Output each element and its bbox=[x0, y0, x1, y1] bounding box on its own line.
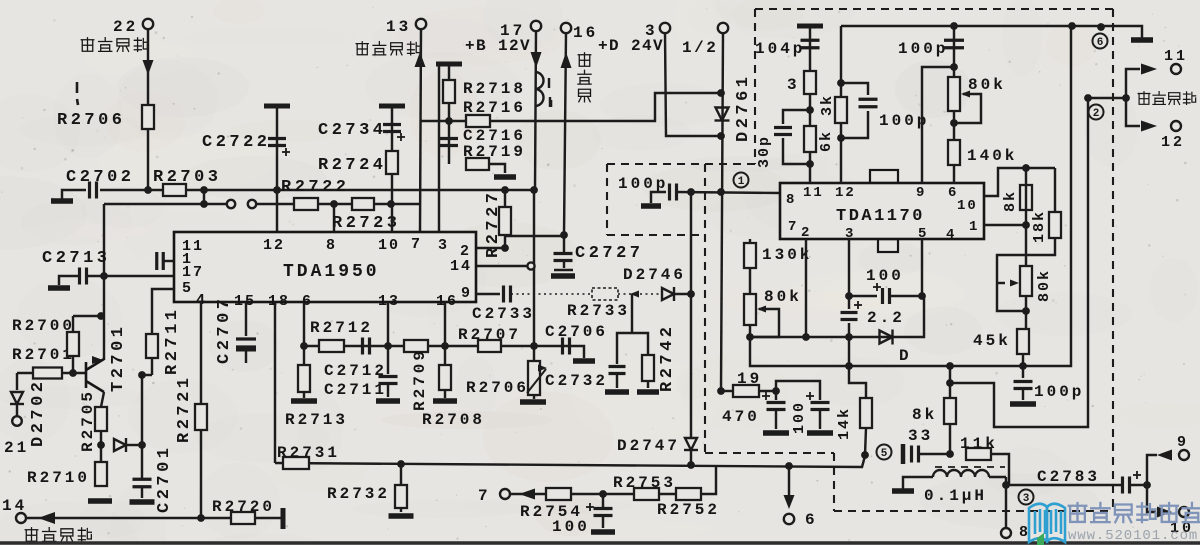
resistor R2700 bbox=[67, 332, 79, 356]
junction fork bbox=[1122, 94, 1130, 102]
trimmer R2706 body bbox=[528, 361, 540, 395]
svg-text:8k: 8k bbox=[912, 406, 937, 424]
diode at R2705 node bbox=[114, 438, 126, 452]
capacitor 2.2 bbox=[841, 313, 858, 320]
junction D2761 top bbox=[717, 89, 725, 97]
circled node 1 bbox=[734, 173, 749, 189]
terminal 21 bbox=[12, 416, 22, 426]
capacitor 33 bbox=[912, 446, 919, 463]
junction R2700 top bbox=[97, 312, 105, 320]
svg-text:80k: 80k bbox=[764, 288, 802, 306]
svg-text:100: 100 bbox=[791, 401, 808, 434]
wire: x691 column bbox=[690, 192, 692, 294]
wire: R2713 to ground bbox=[303, 392, 305, 398]
svg-text:100: 100 bbox=[866, 267, 904, 285]
wire: pin2 stub bbox=[477, 247, 505, 249]
svg-text:D: D bbox=[899, 347, 912, 365]
terminal 17 bbox=[531, 21, 541, 31]
svg-text:100: 100 bbox=[552, 518, 590, 536]
rail bar above C2722 bbox=[264, 104, 290, 109]
wire: 100p bottom stub bbox=[1022, 366, 1024, 378]
svg-text:R2721: R2721 bbox=[175, 374, 194, 443]
junction R2723 right bbox=[387, 200, 395, 208]
wire: pin9 column bbox=[922, 67, 954, 183]
svg-text:30p: 30p bbox=[756, 135, 773, 168]
wire: 16 column down bbox=[564, 33, 566, 235]
arrow castle pulse bbox=[38, 512, 55, 524]
capacitor 30p bbox=[774, 128, 792, 135]
wire: 100p stub to ground bbox=[651, 192, 666, 203]
ground cap1 bbox=[763, 430, 789, 436]
terminal 9 bbox=[1179, 450, 1189, 460]
junction C2783 node bbox=[1143, 481, 1151, 489]
wire: R2711 lower lead bbox=[151, 358, 153, 375]
ground at C2713 bbox=[48, 285, 70, 291]
wire: bottom chain y346 pin6 to C2706 bbox=[304, 345, 569, 347]
svg-text:R2711: R2711 bbox=[163, 306, 182, 375]
wire: terminal 8 column bbox=[1005, 477, 1007, 528]
wire: base wire y373 bbox=[17, 372, 87, 374]
wire: pin5 column bbox=[921, 239, 923, 296]
wire: C2706 to ground bbox=[570, 346, 584, 358]
trimmer R2706 arrow head bbox=[538, 365, 547, 372]
wire: 33 to 8k node bbox=[919, 453, 950, 455]
wire: coil left stub bbox=[903, 477, 933, 489]
op-amp/IC U1 TDA1950 body bbox=[174, 232, 476, 302]
wire: D2761 column bbox=[721, 33, 723, 391]
resistor R2752 bbox=[676, 488, 701, 500]
terminal 22 bbox=[143, 19, 153, 29]
wire: R2705 to diode junction bbox=[100, 431, 102, 445]
IC U2 TDA1170 bottom tab bbox=[878, 239, 898, 252]
svg-text:18k: 18k bbox=[1031, 210, 1048, 243]
svg-text:D2746: D2746 bbox=[623, 266, 686, 284]
wire: diode to C2701 column bbox=[127, 444, 142, 446]
svg-text:1: 1 bbox=[738, 176, 745, 188]
wire: T2701 collector down to R2705 bbox=[101, 392, 104, 407]
wire: pin18 column to R2731 bbox=[274, 302, 276, 463]
resistor R2731 bbox=[283, 457, 309, 469]
svg-text:11: 11 bbox=[803, 185, 824, 201]
resistor R2723 bbox=[352, 198, 374, 210]
capacitor C2707 thick plate bbox=[236, 347, 256, 352]
arrow on 17 column bbox=[531, 52, 542, 68]
arrow at terminal 6 bbox=[784, 495, 795, 509]
label 视频输入 (video input) bbox=[81, 38, 147, 52]
wire: terminal-3 +D24V column bbox=[665, 33, 721, 136]
wire: pin16 column bbox=[444, 302, 446, 346]
capacitor C2727 bbox=[554, 254, 573, 261]
wire: video bus y190 from C2702 to +B column bbox=[100, 189, 534, 191]
svg-text:12: 12 bbox=[1161, 134, 1185, 151]
svg-text:1: 1 bbox=[969, 219, 979, 235]
wire: coil right stub bbox=[989, 476, 1006, 478]
decorative junction on rail bbox=[1097, 23, 1105, 31]
resistor 8k right bbox=[1020, 185, 1032, 210]
wire: 100p parallel jog top bbox=[841, 83, 868, 95]
svg-text:5: 5 bbox=[881, 448, 888, 460]
rail bar above 104p bbox=[797, 24, 823, 29]
junction diode / C2701 column bbox=[138, 441, 146, 449]
wire: pin12 column with C2722 bbox=[276, 108, 278, 232]
junction 22-column / video bus bbox=[144, 186, 152, 194]
junction x104 / C2713 wire bbox=[100, 272, 108, 280]
junction 2.2 / wire-B bbox=[845, 362, 853, 370]
wire: dotted line after R2733 bbox=[618, 293, 660, 295]
wire: R2708 to ground bbox=[444, 390, 446, 398]
capacitor 104p bbox=[801, 40, 820, 48]
dashed box1 top edge bbox=[607, 163, 755, 165]
svg-text:R2731: R2731 bbox=[277, 444, 340, 462]
wire: wire-A trimmer bus y337 bbox=[750, 296, 924, 337]
arrow terminal 10 bbox=[1157, 507, 1172, 518]
capacitor 33 left plate bbox=[901, 444, 906, 464]
wire: C2701 to ground bbox=[141, 487, 143, 498]
arrow terminal 9 bbox=[1157, 450, 1172, 461]
wire: C2713 left stub bbox=[59, 276, 78, 285]
trimmer 80k right body bbox=[1020, 266, 1032, 296]
wire: cap to ground bbox=[616, 374, 618, 388]
resistor 19 bbox=[733, 385, 759, 397]
junction 33/8k/11k bbox=[946, 450, 954, 458]
wire: 100 cap right bbox=[890, 295, 922, 297]
dashed big-box bottom edge bbox=[834, 510, 1113, 512]
junction rail/100p top bbox=[950, 22, 958, 30]
label 堡垒脉冲 (castle pulse) bbox=[25, 528, 91, 542]
svg-text:8: 8 bbox=[786, 192, 796, 208]
trimmer 80k left arrow bbox=[757, 306, 766, 313]
terminal 7 bbox=[500, 489, 510, 499]
junction 8k bottom/pin1 bbox=[1022, 221, 1030, 229]
diode D2761 bbox=[715, 108, 730, 121]
no-connect circle on pin14 bbox=[527, 262, 534, 269]
terminal 11 bbox=[1171, 64, 1181, 74]
capacitor C2712 bbox=[363, 338, 370, 355]
junction R2754 / cap bbox=[599, 490, 607, 498]
resistor R2712 bbox=[319, 340, 344, 352]
junction pin5 node bbox=[918, 292, 926, 300]
dashed box1 left edge bbox=[606, 164, 608, 235]
svg-text:3: 3 bbox=[787, 76, 800, 94]
svg-text:T2701: T2701 bbox=[109, 323, 128, 392]
resistor R2706 bbox=[142, 105, 154, 129]
line-output-transformer core dash 2 bbox=[549, 97, 551, 107]
terminal 6 bbox=[784, 514, 794, 524]
plus cap1 bbox=[762, 392, 770, 400]
wire: R2718 column bbox=[448, 66, 450, 164]
connector circle right bbox=[248, 200, 256, 208]
capacitor C2722 bbox=[268, 139, 286, 146]
wire: D2702 to terminal 21 bbox=[16, 405, 18, 416]
terminal bar right of R2720 bbox=[281, 508, 286, 529]
wire: 22 column bbox=[147, 29, 149, 190]
svg-text:www.520101.com: www.520101.com bbox=[1068, 528, 1198, 544]
resistor R2710 bbox=[95, 462, 107, 486]
scan bottom border bbox=[0, 541, 1200, 545]
resistor R2721 bbox=[195, 404, 207, 430]
capacitor C2783 bbox=[1123, 477, 1130, 494]
capacitor at IC1 pin1 left bbox=[157, 252, 164, 270]
ground under R2710 bbox=[88, 498, 112, 504]
wire: R2700 column bbox=[72, 316, 74, 372]
resistor R2708 bbox=[439, 365, 451, 390]
wire: jog R2727 to 16-column bbox=[505, 235, 564, 237]
resistor R2720 bbox=[231, 512, 255, 524]
wire: stub between buses x204 bbox=[203, 190, 205, 204]
junction R2718/R2716 bbox=[445, 117, 453, 125]
wire: 2.2 lower column bbox=[849, 323, 866, 398]
wire: 80k-right trimmer column bbox=[1025, 225, 1027, 329]
wire: pin5 line to R2711 column bbox=[152, 289, 174, 336]
junction video bus / R2727 top bbox=[501, 186, 509, 194]
dashed big-box top-left edge bbox=[754, 9, 756, 164]
capacitor 100p box1 bbox=[670, 184, 677, 201]
resistor R2742 bbox=[642, 355, 654, 381]
wire: 30p branch bbox=[783, 110, 810, 124]
resistor R2703 bbox=[163, 184, 186, 196]
inductor 0.1uH bbox=[933, 470, 989, 477]
capacitor C2733 bbox=[504, 286, 511, 303]
svg-text:R2707: R2707 bbox=[458, 326, 521, 344]
wire: D2702 column bbox=[16, 373, 18, 390]
wire: wire-B bus y366 bbox=[750, 26, 1071, 366]
capacitor 100 (el) bbox=[883, 288, 890, 304]
arrow to terminal 12 bbox=[1141, 121, 1157, 132]
junction 3k bottom bbox=[837, 134, 845, 142]
junction 19-resistor node bbox=[717, 387, 725, 395]
op-amp/IC U2 TDA1170 body bbox=[780, 183, 984, 239]
resistor R2732 bbox=[395, 485, 407, 508]
wire: wiper to bottom bbox=[997, 283, 1026, 311]
junction pin6/chain bbox=[300, 342, 308, 350]
resistor R2707 bbox=[478, 340, 501, 352]
svg-text:12: 12 bbox=[263, 237, 285, 254]
circled node 6 bbox=[1093, 34, 1108, 50]
wire: cap2 column bbox=[819, 391, 821, 400]
svg-text:R2706: R2706 bbox=[466, 379, 529, 397]
capacitor 100 at term7 bbox=[594, 509, 613, 516]
svg-text:R2712: R2712 bbox=[310, 319, 373, 337]
dashed mark above coil bbox=[935, 466, 1005, 468]
junction D2761 bottom bbox=[717, 132, 725, 140]
wire: D2746 to x691 column bbox=[674, 293, 691, 295]
ground at coil bbox=[892, 488, 914, 494]
wire: castle-pulse bus y518 bbox=[26, 517, 283, 519]
wire: D2747 to bus bbox=[690, 450, 692, 465]
svg-text:R2710: R2710 bbox=[27, 469, 90, 487]
junction D2761 column / 100p wire bbox=[717, 188, 725, 196]
capacitor C2707 plates bbox=[236, 339, 256, 347]
resistor R2716 bbox=[466, 115, 490, 127]
wire: 2.2 column bbox=[848, 296, 850, 309]
wire: C2783 right bbox=[1130, 484, 1147, 486]
junction 30p bottom bbox=[806, 160, 814, 168]
junction pin16/chain bbox=[441, 342, 449, 350]
wire: R2713 column bbox=[303, 346, 305, 365]
svg-text:33: 33 bbox=[908, 427, 933, 445]
resistor 8k bottom bbox=[944, 398, 956, 424]
ground at 100p box1 bbox=[641, 203, 661, 209]
junction pin3 node bbox=[845, 292, 853, 300]
wire: R2700 top wire bbox=[73, 315, 104, 317]
svg-text:22: 22 bbox=[113, 18, 138, 36]
wire: fork wire bbox=[1088, 97, 1126, 99]
resistor 14k bbox=[860, 398, 872, 428]
trimmer R2706 wiper arrow bbox=[527, 369, 546, 393]
junction D2746 / x691 bbox=[687, 290, 695, 298]
wire: 104p column bbox=[809, 28, 811, 183]
svg-text:D2761: D2761 bbox=[734, 73, 753, 142]
junction x204 on y204 bus bbox=[200, 200, 208, 208]
resistor R2733 (dashed) bbox=[592, 288, 618, 300]
capacitor 100 el 2 bbox=[811, 403, 830, 410]
junction R2732 bbox=[397, 460, 405, 468]
svg-text:C2707: C2707 bbox=[215, 295, 234, 364]
dashed big-box bottom notch bbox=[705, 452, 834, 454]
ground cap2 bbox=[807, 430, 833, 436]
wire: R2716 line y121 bbox=[421, 93, 721, 121]
wire: C2727 lower stub bbox=[563, 261, 565, 268]
wire: R2732 to ground bbox=[400, 508, 402, 512]
svg-text:R2718: R2718 bbox=[463, 80, 526, 98]
svg-text:3: 3 bbox=[438, 237, 449, 254]
svg-text:C2733: C2733 bbox=[472, 305, 535, 323]
wire: caps bridge bbox=[776, 381, 820, 391]
wire: R2722/R2723 bus y204 right part bbox=[256, 203, 421, 205]
junction x534 chain bbox=[530, 342, 538, 350]
resistor 11k bbox=[966, 448, 991, 460]
wire: C2702 left stub to ground bbox=[62, 190, 86, 199]
dashed big-box right edge bbox=[1112, 9, 1114, 511]
wire: 13 column down to pin7 bbox=[420, 29, 421, 232]
wire: pin9 stub bbox=[476, 293, 500, 295]
line-output-transformer core dash 1 bbox=[548, 78, 550, 88]
svg-text:R2732: R2732 bbox=[327, 485, 390, 503]
svg-text:R2709: R2709 bbox=[411, 348, 429, 411]
wire: stub cap to IC1 edge bbox=[164, 260, 174, 262]
svg-text:3k: 3k bbox=[819, 94, 836, 116]
junction 14k / bus bbox=[861, 451, 869, 459]
resistor 3k bbox=[835, 97, 847, 123]
inductor on +B column bbox=[535, 72, 544, 106]
wire: pin10 jog bbox=[984, 168, 1055, 196]
dashed big-box notch vertical bbox=[833, 453, 835, 511]
plus of 2.2 bbox=[854, 301, 862, 309]
resistor 3 bbox=[804, 71, 816, 94]
wire: x534 column down to chain bbox=[533, 190, 535, 346]
IC U2 TDA1170 top tab bbox=[870, 170, 898, 183]
wire: top rail y26 bbox=[841, 26, 1142, 38]
ground at C2702 bbox=[51, 198, 73, 204]
resistor R2727 bbox=[499, 207, 511, 235]
svg-text:100p: 100p bbox=[618, 175, 668, 193]
wire: 11k to C2783 bus bbox=[991, 454, 1009, 485]
resistor R2713 bbox=[298, 365, 310, 392]
wire: R2732 column bbox=[400, 464, 402, 485]
rail bar above C2734 bbox=[379, 104, 405, 109]
resistor R2719 bbox=[466, 158, 489, 170]
junction coil/C2783 bus bbox=[1002, 481, 1010, 489]
resistor R2754 bbox=[546, 488, 571, 500]
wire: 45k lower lead bbox=[1022, 354, 1024, 366]
trimmer 80k right arrow bbox=[1010, 280, 1019, 287]
wire: x691 column lower bbox=[690, 294, 692, 437]
svg-text:1/2: 1/2 bbox=[682, 39, 718, 57]
arrow at terminal 7 bbox=[519, 489, 535, 500]
wire: R2742 split right bbox=[632, 333, 648, 355]
svg-text:R2700: R2700 bbox=[12, 317, 75, 335]
wire: 100 cap wire bbox=[849, 295, 877, 297]
diode D2746 bbox=[662, 287, 674, 301]
svg-text:C2702: C2702 bbox=[66, 168, 135, 187]
wire: R2733 node column bbox=[631, 294, 633, 333]
wire: 100p parallel jog bottom bbox=[841, 111, 868, 138]
svg-text:21: 21 bbox=[4, 439, 29, 457]
junction caps node bbox=[772, 387, 780, 395]
svg-text:2: 2 bbox=[801, 225, 811, 241]
wire: pin14 stub bbox=[477, 265, 528, 267]
scan fold dash b bbox=[77, 99, 78, 105]
arrow on T2701 emitter bbox=[92, 356, 103, 364]
wire: pin3 column up to rail bar bbox=[438, 66, 440, 232]
wire: cap column at 603 bbox=[602, 494, 604, 507]
wire: 100p to pin8 of IC2 bbox=[677, 192, 780, 193]
svg-text:R2723: R2723 bbox=[332, 214, 401, 233]
resistor R2701 bbox=[33, 368, 62, 379]
svg-text:C2783: C2783 bbox=[1037, 468, 1100, 486]
svg-text:C2732: C2732 bbox=[545, 372, 608, 390]
junction R2705 / D2704 bbox=[97, 441, 105, 449]
junction R2722/R2723 bbox=[330, 200, 338, 208]
resistor R2724 bbox=[386, 151, 398, 174]
svg-text:R2708: R2708 bbox=[422, 411, 485, 429]
plus cap2 bbox=[806, 392, 814, 400]
svg-text:6k: 6k bbox=[818, 130, 835, 152]
svg-text:C2712: C2712 bbox=[324, 362, 387, 380]
junction 80k right bottom bbox=[1022, 307, 1030, 315]
diode D2702 bbox=[10, 392, 24, 404]
wire: R2731 bus y464 bbox=[275, 456, 865, 467]
transistor T2701 bbox=[86, 359, 104, 392]
plus C2783 bbox=[1133, 471, 1141, 479]
circled node 2 bbox=[1089, 105, 1104, 121]
svg-text:R2706: R2706 bbox=[57, 111, 126, 130]
junction pin13/chain bbox=[384, 342, 392, 350]
wire: C2701 column bbox=[141, 375, 143, 478]
junction R2721 / castle bus bbox=[197, 514, 205, 522]
svg-text:6: 6 bbox=[805, 511, 818, 529]
capacitor C2716 bbox=[440, 139, 458, 146]
wire: vertical corner x104 from y204 down to y316 bbox=[103, 204, 105, 316]
wire: C2707 bottom stub bbox=[245, 351, 247, 363]
label 行输出 (line output) vertical bbox=[578, 53, 591, 102]
ground under 100p bottom bbox=[1010, 401, 1036, 407]
svg-text:R2705: R2705 bbox=[79, 389, 97, 452]
wire: to terminal 9 bbox=[1147, 455, 1157, 485]
wire: cap to ground bbox=[602, 516, 604, 528]
svg-text:+B 12V: +B 12V bbox=[465, 37, 531, 55]
dashed box1 bottom edge bbox=[607, 234, 705, 236]
wire: pin3 column bbox=[848, 239, 850, 296]
svg-text:7: 7 bbox=[411, 236, 422, 253]
label 消噪电平 (noise level) bbox=[356, 42, 420, 55]
svg-text:R2753: R2753 bbox=[613, 474, 676, 492]
svg-text:7: 7 bbox=[788, 219, 798, 235]
junction 80k left bottom bbox=[746, 333, 754, 341]
svg-text:8: 8 bbox=[326, 237, 337, 254]
svg-text:14k: 14k bbox=[836, 407, 853, 440]
capacitor 100p parallel bbox=[859, 99, 878, 107]
